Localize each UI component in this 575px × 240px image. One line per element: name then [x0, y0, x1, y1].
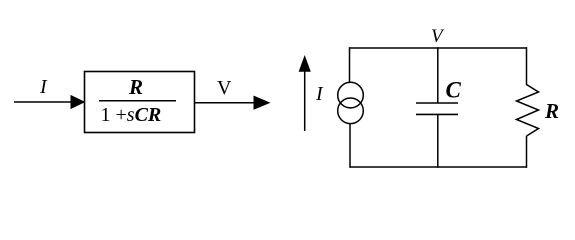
wire middle branch lower — [437, 114, 439, 167]
svg-text:C: C — [446, 78, 462, 103]
wire right branch upper — [526, 47, 528, 85]
wire output arrow line — [195, 102, 256, 104]
svg-text:I: I — [315, 83, 324, 105]
block H(s) box — [85, 72, 195, 133]
svg-text:R: R — [128, 75, 143, 99]
wire left branch lower — [349, 124, 351, 168]
current source I1 lower circle — [338, 98, 364, 124]
wire middle branch upper — [437, 47, 439, 103]
capacitor C top plate — [416, 102, 458, 104]
svg-text:V: V — [431, 26, 445, 47]
resistor R zigzag — [517, 85, 539, 137]
svg-text:V: V — [217, 77, 232, 99]
wire top — [350, 47, 528, 49]
capacitor C bottom plate — [416, 113, 458, 115]
svg-text:1 +sCR: 1 +sCR — [101, 104, 162, 126]
svg-text:I: I — [39, 76, 48, 98]
wire input arrow line — [14, 101, 72, 103]
wire right branch lower — [526, 136, 528, 168]
fraction bar — [99, 100, 176, 102]
output arrowhead — [254, 96, 271, 110]
current direction arrow line — [304, 71, 306, 131]
wire left branch upper — [349, 47, 351, 82]
svg-text:R: R — [544, 99, 559, 123]
current direction arrowhead — [299, 55, 311, 72]
wire bottom — [350, 166, 528, 168]
input arrowhead — [71, 95, 86, 109]
current source I1 upper circle — [338, 82, 364, 108]
